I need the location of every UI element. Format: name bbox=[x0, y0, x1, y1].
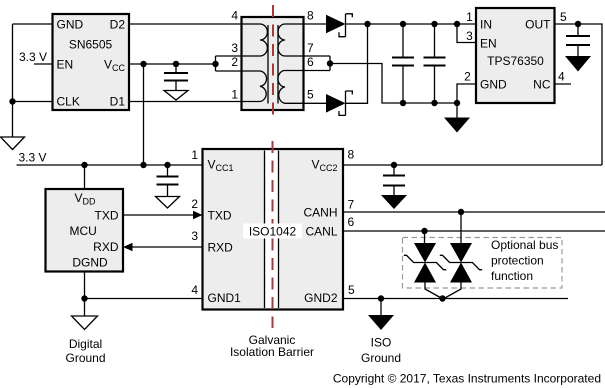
svg-text:8: 8 bbox=[307, 9, 314, 23]
svg-text:1: 1 bbox=[231, 88, 238, 102]
svg-text:DGND: DGND bbox=[72, 256, 108, 270]
svg-text:4: 4 bbox=[191, 283, 198, 297]
svg-text:5: 5 bbox=[307, 88, 314, 102]
svg-text:Ground: Ground bbox=[361, 351, 401, 365]
svg-text:2: 2 bbox=[231, 55, 238, 69]
svg-text:ISO: ISO bbox=[371, 336, 392, 350]
svg-text:RXD: RXD bbox=[93, 240, 119, 254]
svg-text:8: 8 bbox=[348, 148, 355, 162]
svg-text:NC: NC bbox=[533, 78, 551, 92]
svg-text:SN6505: SN6505 bbox=[69, 38, 113, 52]
svg-text:Isolation Barrier: Isolation Barrier bbox=[230, 345, 314, 359]
svg-text:MCU: MCU bbox=[70, 224, 97, 238]
svg-text:GND: GND bbox=[57, 18, 84, 32]
svg-text:EN: EN bbox=[480, 37, 497, 51]
svg-text:6: 6 bbox=[348, 215, 355, 229]
svg-text:TXD: TXD bbox=[208, 209, 232, 223]
svg-text:1: 1 bbox=[466, 10, 473, 24]
svg-text:function: function bbox=[491, 269, 533, 283]
svg-text:2: 2 bbox=[464, 70, 471, 84]
svg-text:ISO1042: ISO1042 bbox=[249, 225, 297, 239]
svg-text:7: 7 bbox=[348, 198, 355, 212]
svg-text:7: 7 bbox=[307, 41, 314, 55]
svg-text:3: 3 bbox=[191, 229, 198, 243]
svg-text:Ground: Ground bbox=[65, 351, 105, 365]
svg-text:OUT: OUT bbox=[525, 18, 551, 32]
svg-text:CLK: CLK bbox=[57, 95, 80, 109]
svg-text:GND1: GND1 bbox=[208, 291, 242, 305]
svg-text:3.3 V: 3.3 V bbox=[19, 50, 47, 64]
svg-text:EN: EN bbox=[57, 58, 74, 72]
svg-text:5: 5 bbox=[560, 10, 567, 24]
svg-text:CANH: CANH bbox=[303, 206, 337, 220]
svg-text:Copyright © 2017, Texas Instru: Copyright © 2017, Texas Instruments Inco… bbox=[333, 372, 601, 386]
svg-text:D2: D2 bbox=[110, 18, 126, 32]
svg-text:3: 3 bbox=[231, 41, 238, 55]
svg-text:Digital: Digital bbox=[69, 337, 102, 351]
svg-text:GND: GND bbox=[480, 78, 507, 92]
svg-text:RXD: RXD bbox=[208, 241, 234, 255]
svg-text:2: 2 bbox=[191, 197, 198, 211]
svg-text:4: 4 bbox=[231, 9, 238, 23]
svg-text:GND2: GND2 bbox=[304, 291, 338, 305]
svg-text:TPS76350: TPS76350 bbox=[487, 54, 544, 68]
svg-text:4: 4 bbox=[558, 70, 565, 84]
svg-text:6: 6 bbox=[307, 55, 314, 69]
svg-text:3: 3 bbox=[466, 29, 473, 43]
svg-text:3.3 V: 3.3 V bbox=[18, 151, 46, 165]
svg-text:TXD: TXD bbox=[95, 209, 119, 223]
svg-text:5: 5 bbox=[348, 283, 355, 297]
svg-text:protection: protection bbox=[491, 254, 544, 268]
svg-text:CANL: CANL bbox=[305, 225, 337, 239]
svg-text:Optional bus: Optional bus bbox=[491, 238, 558, 252]
svg-text:1: 1 bbox=[191, 148, 198, 162]
svg-text:IN: IN bbox=[480, 18, 492, 32]
svg-text:D1: D1 bbox=[110, 95, 126, 109]
